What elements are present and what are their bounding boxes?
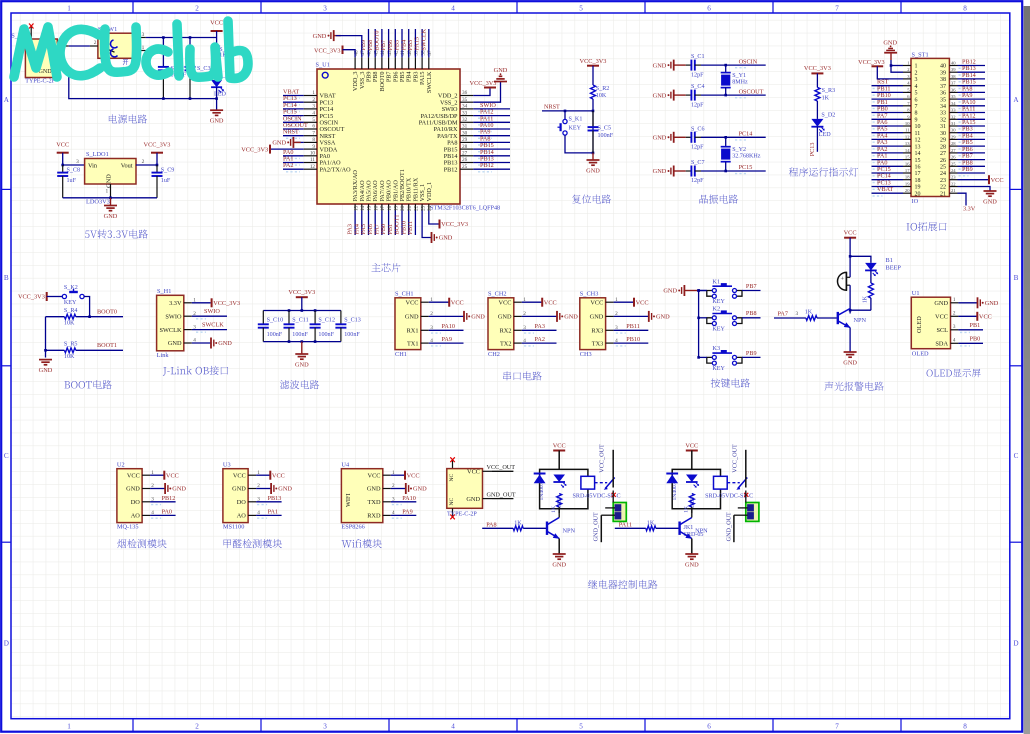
wire — [672, 483, 720, 508]
svg-text:1K: 1K — [805, 309, 813, 315]
svg-text:30: 30 — [462, 130, 468, 136]
svg-text:11: 11 — [310, 157, 315, 163]
capacitor S_C2 100uF — [158, 38, 187, 99]
svg-text:NPN: NPN — [854, 317, 867, 324]
svg-text:B: B — [4, 274, 9, 282]
wire — [699, 356, 707, 358]
power VCC_3V3 — [18, 292, 47, 301]
wire — [391, 501, 417, 503]
wire — [691, 514, 693, 518]
pin 16 PA6/AO — [372, 180, 379, 211]
wire — [283, 162, 304, 164]
wire — [429, 329, 464, 331]
svg-text:VCC_3V3: VCC_3V3 — [314, 47, 340, 54]
svg-text:100nF: 100nF — [267, 332, 283, 338]
wire — [870, 298, 872, 310]
power VCC_3V3 (LDO output) — [144, 142, 171, 153]
svg-text:SWCLK: SWCLK — [420, 28, 427, 50]
resistor 1K — [684, 494, 695, 513]
wire VCC_OUT — [612, 450, 614, 488]
svg-text:VCC: VCC — [844, 229, 857, 236]
svg-text:10: 10 — [915, 124, 921, 130]
svg-text:3: 3 — [323, 723, 327, 731]
svg-text:35: 35 — [940, 97, 946, 103]
pushbutton S_K2 KEY — [62, 285, 84, 306]
svg-text:KEY: KEY — [712, 299, 725, 305]
wire — [150, 514, 176, 516]
wire — [701, 136, 766, 138]
capacitor S_C12 100nF — [310, 311, 335, 342]
wire — [394, 211, 396, 236]
canvas edge shading right — [1024, 6, 1030, 734]
junction — [564, 110, 567, 113]
wire — [45, 317, 47, 358]
svg-text:34: 34 — [940, 104, 946, 110]
power VCC_3V3 (VDD_3) — [314, 46, 342, 55]
wire VDDA — [270, 148, 304, 150]
svg-text:GND: GND — [552, 562, 566, 569]
title 声光报警电路 — [824, 382, 883, 391]
svg-text:GND: GND — [232, 486, 246, 493]
svg-text:36: 36 — [951, 87, 956, 92]
wire BOOT1 row — [46, 349, 65, 351]
wire VCC stem — [216, 31, 218, 38]
wire — [592, 66, 594, 85]
resistor (alarm) 1K — [863, 283, 874, 303]
svg-text:5: 5 — [579, 4, 583, 12]
wire — [473, 148, 510, 150]
junction — [189, 36, 192, 39]
svg-text:3: 3 — [323, 4, 327, 12]
resistor 1K (relay base) — [513, 520, 523, 530]
LED S_D2 — [811, 113, 835, 139]
svg-text:NPN: NPN — [695, 527, 708, 534]
svg-text:C: C — [1014, 452, 1019, 460]
wire — [701, 94, 766, 96]
svg-text:VCC_3V3: VCC_3V3 — [288, 289, 315, 296]
svg-text:6: 6 — [707, 4, 711, 12]
svg-text:NC: NC — [449, 473, 455, 481]
wire — [699, 317, 707, 319]
wire — [473, 108, 510, 110]
wire GND_OUT — [600, 515, 602, 542]
svg-text:GND: GND — [843, 360, 857, 367]
transistor NPN (relay) — [547, 518, 576, 539]
svg-text:22: 22 — [940, 185, 946, 191]
pushbutton K1 KEY — [707, 278, 742, 305]
wire — [872, 179, 904, 181]
title 复位电路 — [572, 195, 611, 204]
capacitor S_C7 12pF — [686, 160, 705, 184]
title 程序运行指示灯 — [789, 167, 858, 176]
wire — [473, 141, 510, 143]
wire — [558, 514, 560, 518]
title 按键电路 — [711, 378, 750, 387]
svg-text:VCC: VCC — [56, 142, 69, 149]
svg-text:VCC: VCC — [368, 472, 381, 479]
svg-text:GND: GND — [466, 496, 480, 503]
svg-text:13: 13 — [905, 141, 910, 146]
wire — [701, 170, 766, 172]
junction — [314, 340, 317, 343]
wire — [701, 64, 766, 66]
svg-text:VCC_3V3: VCC_3V3 — [470, 80, 497, 87]
svg-text:17: 17 — [380, 205, 386, 211]
wire — [691, 507, 693, 509]
svg-text:D: D — [1013, 640, 1018, 648]
diode 1N4007 — [534, 474, 546, 501]
pin 31 PA10/RX — [434, 124, 474, 134]
pin 40 PB4 — [406, 50, 413, 82]
svg-text:32: 32 — [951, 114, 956, 119]
wire key bus — [698, 291, 700, 358]
svg-text:1: 1 — [312, 90, 315, 96]
svg-text:MS1100: MS1100 — [223, 524, 244, 531]
wire — [872, 105, 904, 107]
svg-text:4: 4 — [915, 84, 918, 90]
svg-text:23: 23 — [420, 205, 426, 211]
ground — [653, 60, 674, 71]
wire — [958, 71, 986, 73]
pin 45 PB8 — [372, 50, 379, 82]
wire — [192, 329, 227, 331]
wire — [958, 125, 986, 127]
wire — [256, 488, 271, 490]
wire — [283, 101, 304, 103]
ground — [653, 132, 674, 143]
svg-text:40: 40 — [940, 64, 946, 70]
svg-text:20: 20 — [905, 188, 910, 193]
svg-text:S_C12: S_C12 — [318, 318, 335, 324]
ground — [586, 160, 600, 175]
logo MCUclub — [14, 21, 248, 78]
pin 32 PA11/USB/DM — [419, 117, 474, 127]
svg-text:GND: GND — [656, 314, 670, 321]
svg-text:PA2/TX/AO: PA2/TX/AO — [320, 166, 352, 173]
svg-text:15: 15 — [905, 155, 910, 160]
wire — [343, 50, 356, 58]
svg-text:GND: GND — [586, 168, 600, 175]
wire — [870, 270, 872, 283]
svg-text:S_K2: S_K2 — [64, 285, 78, 291]
pin 11 PA1/AO — [304, 157, 341, 167]
wire — [872, 85, 904, 87]
power VCC — [210, 20, 223, 32]
power VCC_3V3 — [470, 80, 497, 88]
wire — [816, 127, 818, 152]
relay coil SRD-05VDC-SL-C — [705, 476, 753, 499]
svg-text:GND: GND — [405, 314, 419, 321]
wire — [674, 94, 686, 96]
svg-text:S_Y2: S_Y2 — [732, 147, 746, 153]
svg-text:22: 22 — [414, 205, 420, 211]
svg-text:PA0: PA0 — [162, 508, 172, 515]
diode 1N4007 — [666, 474, 678, 501]
IC U4 ESP8266 — [341, 462, 395, 531]
svg-text:17: 17 — [905, 168, 910, 173]
wire — [958, 85, 986, 87]
title J-Link OB接口 — [163, 366, 228, 376]
pin 10 PA0 — [304, 151, 330, 161]
svg-text:GND: GND — [106, 174, 113, 188]
wire — [408, 211, 410, 236]
pin 23 VSS_1 — [419, 184, 426, 211]
svg-text:LDO3V3: LDO3V3 — [86, 199, 110, 206]
pin 1 VBAT — [304, 90, 336, 100]
svg-text:PB12: PB12 — [162, 495, 176, 502]
svg-text:7: 7 — [915, 104, 918, 110]
wire — [872, 192, 904, 194]
svg-text:PB10: PB10 — [626, 336, 640, 343]
svg-text:2: 2 — [195, 4, 199, 12]
wire VCC_OUT — [745, 450, 747, 488]
wire — [674, 170, 686, 172]
power VCC — [449, 298, 464, 307]
wire — [725, 137, 727, 146]
wire — [110, 198, 112, 206]
svg-text:VCC: VCC — [544, 299, 557, 306]
wire — [492, 470, 513, 472]
svg-text:2: 2 — [953, 311, 956, 317]
svg-text:CH1: CH1 — [395, 351, 407, 358]
svg-text:S_R4: S_R4 — [64, 308, 78, 314]
svg-text:37: 37 — [951, 81, 956, 86]
svg-text:GND: GND — [210, 118, 224, 125]
svg-text:29: 29 — [462, 137, 468, 143]
svg-text:13: 13 — [353, 205, 359, 211]
svg-text:BEEP: BEEP — [886, 264, 902, 271]
wire — [192, 302, 211, 304]
svg-text:21: 21 — [940, 191, 946, 197]
wire — [958, 105, 986, 107]
svg-text:32: 32 — [940, 118, 946, 124]
svg-text:GND: GND — [883, 39, 897, 46]
svg-text:KEY: KEY — [712, 326, 725, 332]
svg-text:1uF: 1uF — [161, 178, 171, 184]
wire — [401, 211, 403, 236]
svg-text:K2: K2 — [712, 306, 720, 313]
power VCC_3V3 — [212, 298, 241, 307]
wire — [473, 121, 510, 123]
svg-text:29: 29 — [951, 134, 956, 139]
svg-text:TXD: TXD — [368, 499, 381, 506]
wire — [725, 88, 727, 96]
title 晶振电路 — [699, 195, 738, 204]
svg-text:7: 7 — [835, 4, 839, 12]
svg-text:KEY: KEY — [64, 300, 77, 306]
wire — [522, 315, 557, 317]
svg-text:1: 1 — [105, 188, 108, 194]
svg-text:SCL: SCL — [936, 327, 948, 334]
svg-text:38: 38 — [951, 74, 956, 79]
wire — [699, 290, 707, 292]
ground — [685, 554, 699, 569]
wire — [473, 128, 510, 130]
wire T1 GND to bottom rail — [69, 70, 217, 99]
svg-text:10: 10 — [905, 121, 910, 126]
svg-text:LED: LED — [819, 132, 831, 138]
svg-text:6: 6 — [915, 97, 918, 103]
pin 44 BOOT0 — [379, 50, 386, 91]
svg-text:6: 6 — [312, 124, 315, 130]
pushbutton K2 KEY — [707, 306, 742, 333]
svg-text:GND: GND — [278, 486, 292, 493]
svg-text:VCC_3V3: VCC_3V3 — [804, 65, 831, 72]
svg-text:GND: GND — [653, 135, 667, 142]
svg-text:13: 13 — [915, 144, 921, 150]
pin 3 PC14 — [304, 104, 334, 114]
svg-text:36: 36 — [462, 90, 468, 96]
svg-text:100nF: 100nF — [318, 332, 334, 338]
svg-text:34: 34 — [462, 104, 468, 110]
wire — [958, 159, 986, 161]
svg-text:S_D2: S_D2 — [821, 113, 835, 119]
wire — [473, 168, 510, 170]
svg-text:1K: 1K — [647, 520, 655, 526]
svg-text:S_R2: S_R2 — [596, 86, 610, 92]
pin 43 PB7 — [386, 50, 393, 82]
ground (keys) — [663, 285, 684, 296]
wire — [150, 474, 164, 476]
wire — [684, 290, 697, 292]
LED (relay) — [686, 475, 699, 508]
wire — [368, 29, 370, 57]
junction — [61, 164, 64, 167]
wire — [283, 95, 304, 97]
svg-text:26: 26 — [462, 157, 468, 163]
title OLED显示屏 — [927, 369, 981, 377]
wire — [872, 91, 904, 93]
wire — [361, 211, 363, 236]
junction — [109, 197, 112, 200]
svg-text:S_C9: S_C9 — [161, 167, 175, 173]
ground — [649, 311, 670, 322]
svg-text:10K: 10K — [596, 93, 607, 99]
wire VSS_2 to GND — [473, 82, 500, 103]
svg-text:VCC: VCC — [935, 314, 948, 321]
svg-text:A: A — [4, 96, 10, 104]
junction — [592, 110, 595, 113]
svg-text:OLED: OLED — [912, 350, 929, 357]
ground — [653, 90, 674, 101]
wire — [429, 301, 449, 303]
buzzer B1 BEEP — [838, 257, 902, 290]
svg-text:GND: GND — [168, 340, 182, 347]
svg-text:WIFI: WIFI — [345, 493, 352, 507]
pushbutton S_K1 KEY — [558, 117, 583, 135]
junction — [189, 97, 192, 100]
svg-text:GND: GND — [653, 168, 667, 175]
power VCC — [685, 442, 698, 450]
svg-text:VCC_OUT: VCC_OUT — [599, 444, 606, 473]
svg-text:3: 3 — [76, 159, 79, 165]
svg-text:NRST: NRST — [283, 129, 299, 136]
svg-text:GND: GND — [272, 140, 286, 147]
svg-text:VCC: VCC — [467, 469, 480, 476]
wire — [354, 211, 356, 236]
pin 6 OSCOUT — [304, 124, 345, 134]
crystal S_Y2 32.768KHz — [721, 147, 761, 162]
svg-text:1K: 1K — [551, 506, 557, 513]
svg-text:NPN: NPN — [563, 527, 576, 534]
connector S_ST1 40-pin header — [903, 51, 958, 205]
power VCC — [405, 471, 420, 480]
svg-text:S_C7: S_C7 — [691, 160, 705, 166]
capacitor S_C13 100nF — [335, 311, 360, 342]
svg-text:GND_OUT: GND_OUT — [593, 512, 600, 541]
svg-text:PB9: PB9 — [746, 350, 757, 357]
wire bottom rail — [263, 341, 341, 343]
wire — [890, 53, 892, 60]
wire — [614, 329, 649, 331]
svg-text:4: 4 — [312, 110, 315, 116]
ground — [494, 67, 508, 82]
junction — [301, 309, 304, 312]
svg-text:GND_OUT: GND_OUT — [725, 512, 732, 541]
capacitor S_C4 12pF — [686, 84, 705, 108]
svg-text:15: 15 — [367, 205, 373, 211]
LED (alarm) — [865, 263, 878, 276]
svg-text:7: 7 — [312, 130, 315, 136]
junction — [697, 289, 700, 292]
title BOOT电路 — [64, 380, 111, 389]
svg-text:S_Y1: S_Y1 — [732, 73, 746, 79]
svg-text:48: 48 — [353, 50, 359, 56]
svg-text:S_C6: S_C6 — [691, 126, 705, 132]
svg-text:PC13: PC13 — [809, 143, 816, 157]
svg-text:OLED: OLED — [916, 316, 923, 333]
junction — [288, 340, 291, 343]
svg-text:12pF: 12pF — [691, 178, 704, 184]
wire — [872, 112, 904, 114]
svg-text:GND_OUT: GND_OUT — [487, 491, 516, 498]
svg-text:9: 9 — [915, 118, 918, 124]
wire — [256, 501, 282, 503]
wire — [872, 118, 904, 120]
svg-text:GND: GND — [413, 486, 427, 493]
svg-text:U1: U1 — [912, 290, 920, 297]
svg-text:31: 31 — [951, 121, 956, 126]
svg-text:RX1: RX1 — [407, 328, 419, 335]
svg-text:33: 33 — [940, 111, 946, 117]
wire — [958, 302, 977, 304]
svg-text:DO: DO — [237, 499, 247, 506]
junction — [724, 136, 727, 139]
wire — [391, 514, 417, 516]
svg-text:RX2: RX2 — [500, 328, 512, 335]
svg-text:35: 35 — [951, 94, 956, 99]
svg-text:BOOT0: BOOT0 — [97, 309, 117, 316]
connector S_CH1 — [395, 291, 433, 358]
svg-text:K1: K1 — [712, 278, 720, 285]
wire — [428, 29, 430, 57]
svg-text:VCC_3V3: VCC_3V3 — [18, 294, 45, 301]
resistor S_R5 10K — [64, 342, 78, 360]
pin 26 PB13 — [444, 157, 474, 167]
svg-text:VCC_3V3: VCC_3V3 — [858, 59, 884, 66]
svg-text:31: 31 — [940, 124, 946, 130]
wire — [522, 329, 557, 331]
LED S_D1 — [211, 73, 233, 97]
display U1 OLED — [911, 290, 958, 357]
power VCC_3V3 — [440, 220, 469, 229]
wire — [958, 65, 986, 67]
wire — [283, 135, 304, 137]
connector relay output — [734, 491, 759, 522]
junction — [162, 97, 165, 100]
power VCC (pin 23) — [989, 175, 1004, 184]
svg-text:VCC: VCC — [451, 299, 464, 306]
